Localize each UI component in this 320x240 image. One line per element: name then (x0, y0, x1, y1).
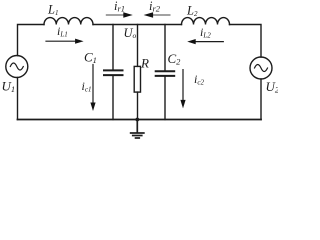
wire C2 branch upper (164, 25, 166, 71)
resistor R (134, 66, 140, 92)
AC source U1 (6, 56, 28, 78)
wire R branch upper (137, 25, 139, 67)
svg-text:iL2: iL2 (200, 25, 211, 40)
svg-text:L1: L1 (47, 3, 58, 17)
wire R branch lower (137, 92, 139, 119)
capacitor C2 (156, 71, 175, 76)
current arrow i_L2 (187, 25, 224, 44)
wire top-middle segment (93, 24, 182, 26)
svg-text:L2: L2 (186, 4, 198, 18)
junction node dot (135, 118, 139, 122)
svg-text:ic1: ic1 (82, 79, 92, 94)
svg-text:iL1: iL1 (57, 24, 68, 39)
wire bottom (18, 119, 262, 121)
AC source U2 (250, 57, 272, 79)
wire C1 branch upper (112, 25, 114, 70)
svg-text:C1: C1 (84, 50, 97, 66)
svg-text:ir2: ir2 (149, 0, 161, 13)
wire C2 branch lower (164, 77, 166, 120)
svg-text:U1: U1 (2, 79, 16, 95)
svg-text:U2: U2 (266, 79, 279, 95)
capacitor C1 (104, 70, 123, 75)
current arrow i_r2 (144, 0, 171, 18)
svg-text:ic2: ic2 (194, 72, 204, 87)
wire left-bottom segment (17, 78, 19, 120)
svg-text:ir1: ir1 (114, 0, 125, 13)
svg-text:C2: C2 (168, 51, 182, 67)
current arrow i_L1 (45, 24, 83, 44)
svg-text:Uo: Uo (124, 26, 137, 40)
current arrow i_c2 (180, 69, 204, 108)
wire top-right segment (230, 25, 262, 58)
wire right-bottom segment (260, 79, 262, 120)
ground (130, 120, 145, 139)
svg-text:R: R (140, 55, 149, 70)
current arrow i_r1 (106, 0, 133, 18)
current arrow i_c1 (82, 64, 96, 111)
inductor L2 (182, 18, 230, 25)
wire top-left segment (18, 25, 45, 56)
wire C1 branch lower (112, 76, 114, 120)
inductor L1 (44, 18, 93, 25)
